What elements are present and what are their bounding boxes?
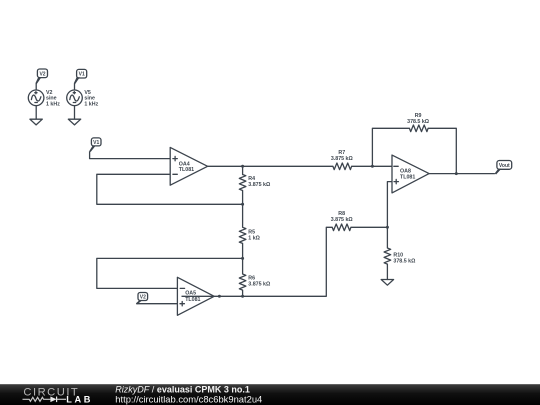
wire flag V1 to OA4 + input <box>90 151 171 158</box>
svg-text:R6: R6 <box>248 275 255 281</box>
svg-text:V2: V2 <box>140 295 146 301</box>
voltage source V5 (sine 1 kHz) <box>67 90 99 108</box>
node R5/R6 junction <box>241 257 244 260</box>
voltage source V2 (sine 1 kHz) <box>28 90 60 108</box>
svg-text:3.875 kΩ: 3.875 kΩ <box>331 156 354 162</box>
wire R8 to OA8 + node <box>351 226 388 228</box>
svg-text:R5: R5 <box>248 229 255 235</box>
wire flag V2 to OA5 + input <box>136 303 177 305</box>
node R9 / output junction <box>455 172 458 175</box>
svg-text:3.875 kΩ: 3.875 kΩ <box>248 182 271 188</box>
svg-text:LAB: LAB <box>66 394 93 404</box>
svg-text:R4: R4 <box>248 176 255 182</box>
flag Vout <box>495 161 512 175</box>
svg-text:Vout: Vout <box>499 163 510 169</box>
resistor R6 3.875 kOhm <box>239 258 271 296</box>
svg-text:378.5 kΩ: 378.5 kΩ <box>393 259 416 265</box>
node OA4 output / R4 top <box>241 165 244 168</box>
CircuitLab logo wire-resistor-diode art <box>23 397 67 403</box>
svg-text:http://circuitlab.com/c8c6bk9n: http://circuitlab.com/c8c6bk9nat2u4 <box>115 394 262 405</box>
wire source V2 to ground <box>35 106 37 120</box>
wire R5/R6 node to OA5 - input <box>97 258 243 288</box>
resistor R8 3.875 kOhm <box>331 211 354 231</box>
flag V1 (on source V5) <box>74 69 87 84</box>
flag V2 (input to OA5) <box>136 293 148 305</box>
wire flag V1 to source V5 <box>74 84 76 91</box>
wire R9 to OA8 output <box>428 128 456 173</box>
node R7 / R9 / OA8 - <box>371 165 374 168</box>
svg-text:1 kΩ: 1 kΩ <box>248 236 260 242</box>
svg-text:R10: R10 <box>393 252 403 258</box>
wire R7 to OA8 - input <box>352 165 392 167</box>
resistor R5 1 kOhm <box>239 204 260 258</box>
svg-text:V1: V1 <box>79 72 85 78</box>
wire OA8 + input stub <box>387 182 392 228</box>
svg-text:1 kHz: 1 kHz <box>46 101 60 107</box>
resistor R4 3.875 kOhm <box>239 166 271 204</box>
wire OA4 feedback (- input loop) <box>97 174 243 204</box>
flag V1 (input to OA4) <box>89 138 101 152</box>
svg-text:1 kHz: 1 kHz <box>84 101 98 107</box>
svg-text:OA5: OA5 <box>185 291 196 297</box>
op-amp OA4 TL081 <box>170 147 207 185</box>
wire OA8 output to Vout <box>429 173 495 175</box>
wire source V5 to ground <box>74 106 76 120</box>
svg-text:3.875 kΩ: 3.875 kΩ <box>331 217 354 223</box>
resistor R7 3.875 kOhm <box>331 150 354 170</box>
node R8 / R10 / OA8 + <box>386 226 389 229</box>
wire OA5 inner output <box>182 295 215 297</box>
node R4/R5 junction <box>241 203 244 206</box>
svg-text:V1: V1 <box>93 140 99 146</box>
ground (below R10) <box>381 280 393 286</box>
op-amp OA8 TL081 <box>392 155 429 193</box>
svg-text:3.875 kΩ: 3.875 kΩ <box>248 282 271 288</box>
wire flag V2 to source V2 <box>35 84 37 91</box>
node R6 bottom <box>241 295 244 298</box>
svg-text:378.5 kΩ: 378.5 kΩ <box>407 119 430 125</box>
op-amp OA5 TL081 <box>177 277 214 315</box>
node OA5 output <box>218 295 221 298</box>
flag V2 (on source V2) <box>35 69 47 84</box>
resistor R10 378.5 kOhm <box>384 227 416 279</box>
ground (below V2) <box>30 119 42 125</box>
svg-text:TL081: TL081 <box>185 297 200 303</box>
wire R9 feedback loop left/top <box>372 128 409 166</box>
wire OA4 output to R7 <box>208 165 333 167</box>
resistor R9 378.5 kOhm <box>407 113 430 132</box>
wire OA5 output along bottom <box>214 227 332 296</box>
svg-text:TL081: TL081 <box>400 174 415 180</box>
svg-text:TL081: TL081 <box>179 167 194 173</box>
ground (below V5) <box>68 119 80 125</box>
svg-text:V2: V2 <box>39 71 45 77</box>
